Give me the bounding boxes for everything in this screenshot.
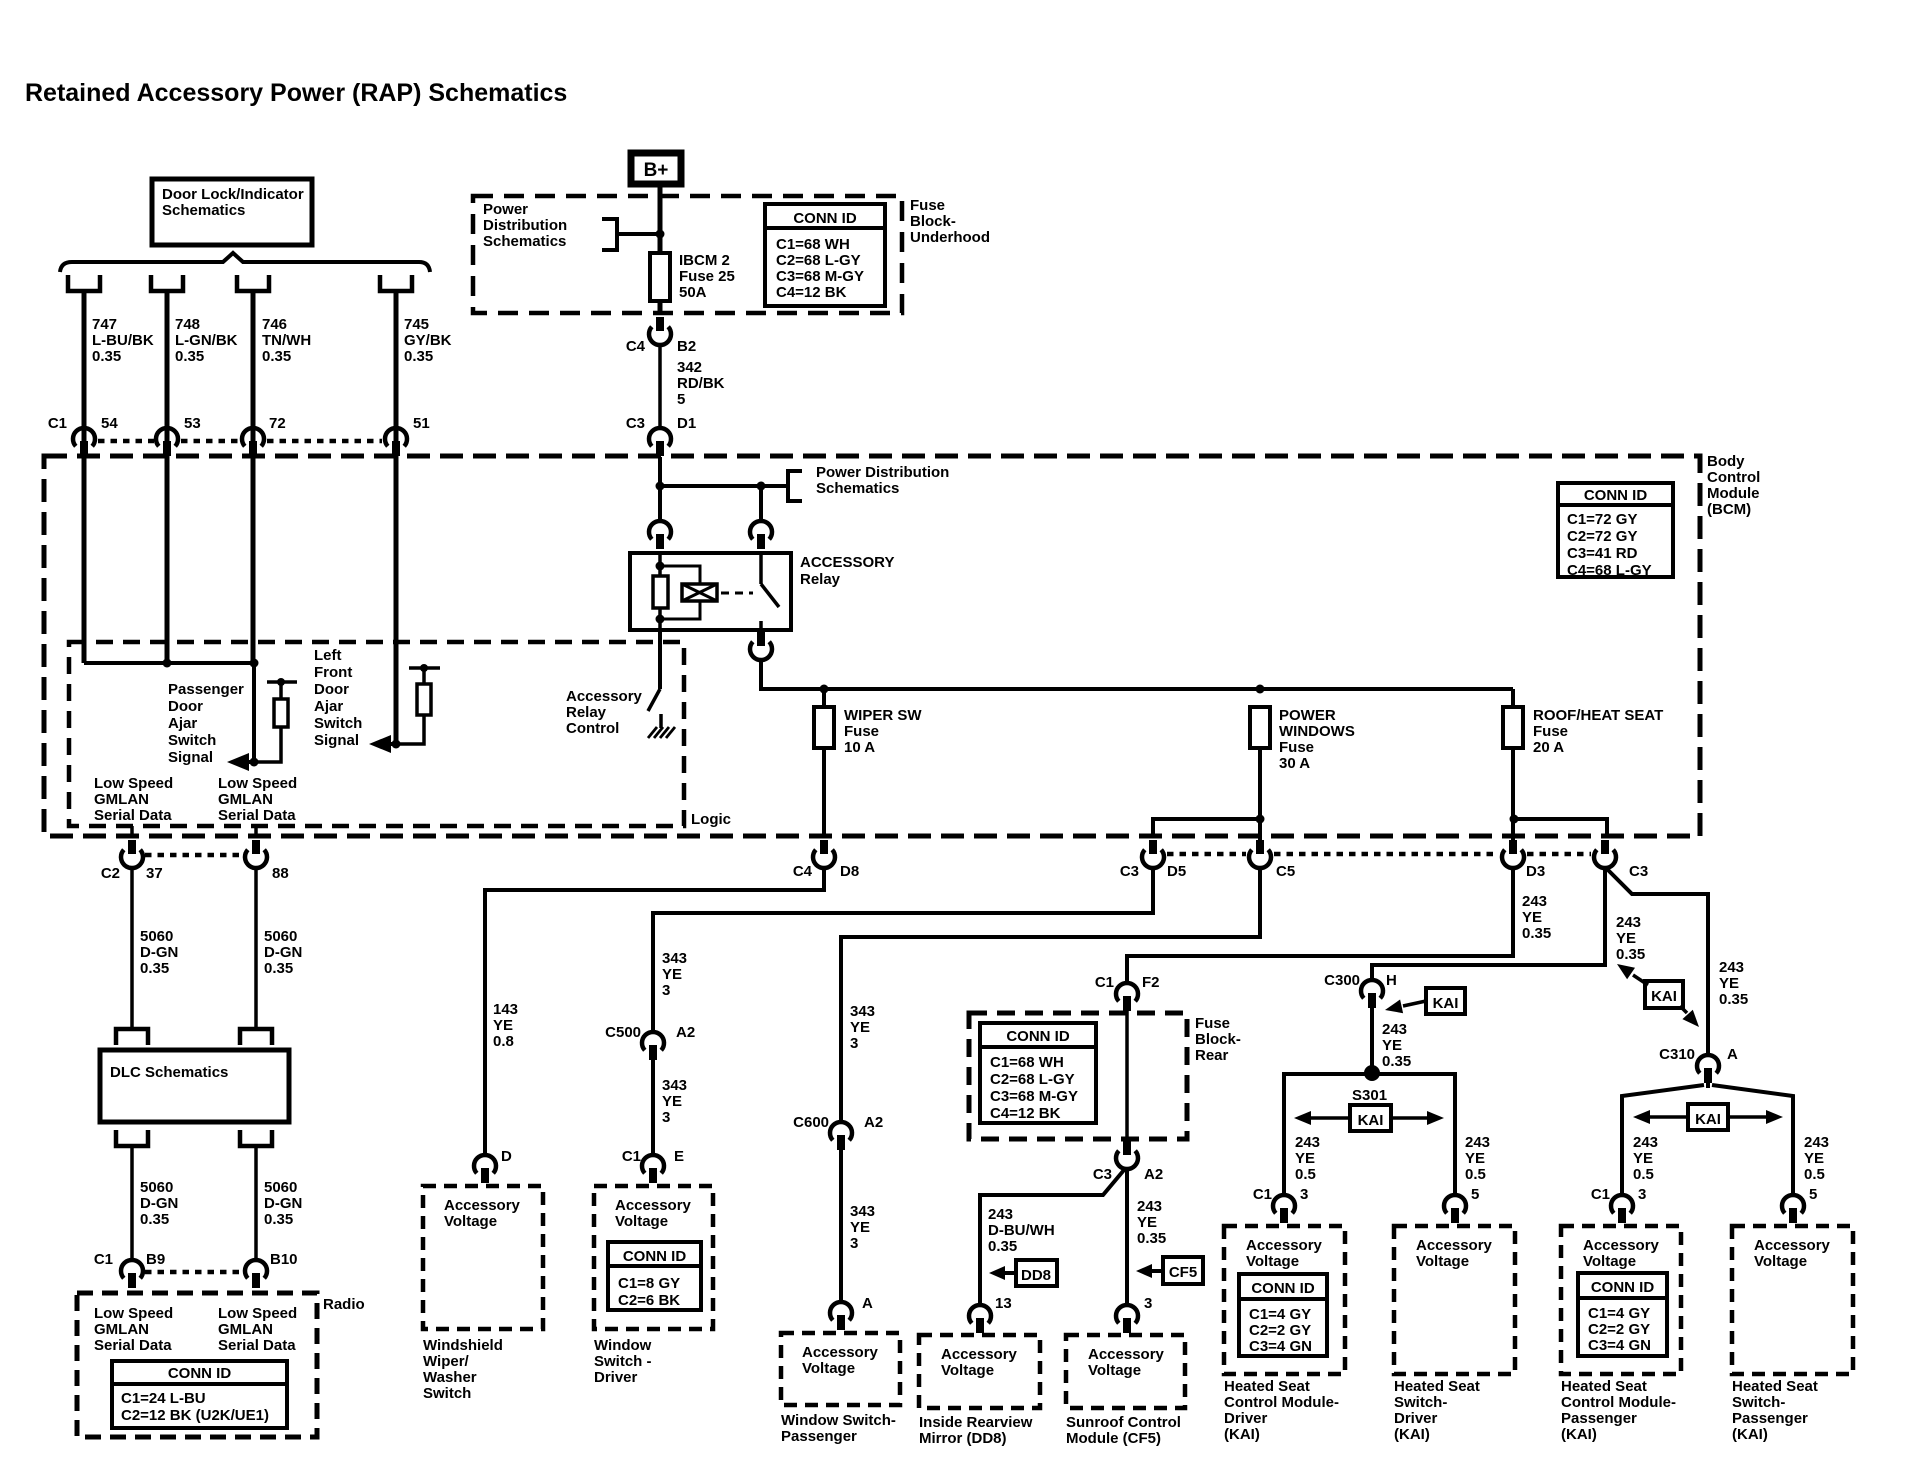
chassis ground <box>648 727 657 738</box>
svg-text:Fuse: Fuse <box>844 723 879 740</box>
svg-text:243: 243 <box>1295 1134 1320 1151</box>
connector C4/D8 <box>820 840 828 854</box>
svg-text:C2=6 BK: C2=6 BK <box>618 1292 680 1309</box>
svg-text:Schematics: Schematics <box>162 202 245 219</box>
relay coil parallel link <box>660 566 700 584</box>
svg-text:C1: C1 <box>1253 1186 1272 1203</box>
dotted line C2 row <box>145 853 243 858</box>
svg-text:0.35: 0.35 <box>988 1238 1017 1255</box>
svg-text:Distribution: Distribution <box>483 217 567 234</box>
svg-text:Serial Data: Serial Data <box>218 807 296 824</box>
wire D8 to windshield wiper switch <box>485 868 824 1155</box>
svg-text:Accessory: Accessory <box>1754 1237 1831 1254</box>
connector C5 <box>1256 840 1264 854</box>
svg-text:0.5: 0.5 <box>1295 1166 1316 1183</box>
svg-text:20 A: 20 A <box>1533 739 1564 756</box>
dashed box Heated Seat Switch-Driver <box>1394 1226 1515 1374</box>
svg-text:Washer: Washer <box>423 1369 477 1386</box>
connector C1 pin 3 heated seat control driver <box>1273 1195 1295 1213</box>
svg-text:YE: YE <box>662 1093 682 1110</box>
connector C2 pin 37 <box>128 840 136 854</box>
svg-text:DLC Schematics: DLC Schematics <box>110 1064 228 1081</box>
connector C1 pin 54 <box>73 428 95 446</box>
svg-text:A2: A2 <box>1144 1166 1163 1183</box>
svg-text:D: D <box>501 1148 512 1165</box>
box DLC Schematics <box>100 1050 289 1122</box>
wire 342 RD/BK 5 <box>658 345 662 428</box>
svg-text:A2: A2 <box>676 1024 695 1041</box>
svg-text:0.35: 0.35 <box>175 348 204 365</box>
connector C1 pin 72 <box>242 428 264 446</box>
svg-text:KAI: KAI <box>1433 995 1459 1012</box>
svg-text:C3: C3 <box>626 415 645 432</box>
dashed box Inside Rearview Mirror <box>919 1335 1040 1408</box>
wire down to relay switch <box>759 486 763 521</box>
svg-text:C4=68 L-GY: C4=68 L-GY <box>1567 562 1652 579</box>
connector C1 pin 53 <box>156 428 178 446</box>
B+ battery feed box <box>631 153 681 184</box>
svg-text:Switch: Switch <box>168 732 216 749</box>
relay output connector <box>757 632 765 646</box>
svg-text:3: 3 <box>1300 1186 1308 1203</box>
svg-text:CONN ID: CONN ID <box>1584 487 1648 504</box>
connector C1 pin 3 heated seat control passenger <box>1611 1195 1633 1213</box>
svg-text:Passenger: Passenger <box>168 681 244 698</box>
svg-text:YE: YE <box>1522 909 1542 926</box>
svg-text:Driver: Driver <box>1394 1410 1438 1427</box>
svg-text:D3: D3 <box>1526 863 1545 880</box>
svg-text:C1=72 GY: C1=72 GY <box>1567 511 1637 528</box>
svg-text:YE: YE <box>1804 1150 1824 1167</box>
svg-text:0.5: 0.5 <box>1633 1166 1654 1183</box>
svg-text:WIPER SW: WIPER SW <box>844 707 922 724</box>
svg-text:0.35: 0.35 <box>1137 1230 1166 1247</box>
svg-text:C1=24 L-BU: C1=24 L-BU <box>121 1390 206 1407</box>
terminal stub 746 <box>237 275 269 291</box>
svg-text:TN/WH: TN/WH <box>262 332 311 349</box>
wire 747 L-BU/BK <box>82 291 87 429</box>
svg-text:(KAI): (KAI) <box>1224 1426 1260 1443</box>
svg-text:Driver: Driver <box>1224 1410 1268 1427</box>
relay switch blade <box>759 553 763 584</box>
dotted line BCM bottom row <box>1167 852 1246 857</box>
relay coil winding symbol <box>682 584 717 601</box>
wire A2 to sunroof control module <box>1125 1168 1129 1305</box>
svg-text:WINDOWS: WINDOWS <box>1279 723 1355 740</box>
svg-text:Window: Window <box>594 1337 652 1354</box>
svg-text:Heated Seat: Heated Seat <box>1561 1378 1647 1395</box>
connector 5 heated seat switch driver <box>1444 1195 1466 1213</box>
wire C300 to S301 <box>1370 1008 1374 1073</box>
svg-text:243: 243 <box>1465 1134 1490 1151</box>
connector C3/D5 <box>1149 840 1157 854</box>
terminal stub 748 <box>151 275 183 291</box>
arrow KAI to C310 branch <box>1680 1006 1687 1013</box>
svg-text:Body: Body <box>1707 453 1745 470</box>
connector D windshield wiper switch <box>474 1155 496 1173</box>
svg-text:243: 243 <box>1633 1134 1658 1151</box>
svg-text:Passenger: Passenger <box>1732 1410 1808 1427</box>
svg-text:Heated Seat: Heated Seat <box>1224 1378 1310 1395</box>
svg-text:Switch-: Switch- <box>1732 1394 1785 1411</box>
svg-text:Fuse: Fuse <box>1279 739 1314 756</box>
svg-text:C2=2 GY: C2=2 GY <box>1588 1321 1650 1338</box>
connector A window switch passenger <box>830 1302 852 1320</box>
svg-text:Front: Front <box>314 664 352 681</box>
CONN ID table Heated Seat Control Module-Passenger <box>1578 1273 1667 1356</box>
wire GMLAN right to DLC <box>254 868 258 1029</box>
svg-text:A2: A2 <box>864 1114 883 1131</box>
svg-text:Door Lock/Indicator: Door Lock/Indicator <box>162 186 304 203</box>
svg-text:C3=41 RD: C3=41 RD <box>1567 545 1638 562</box>
svg-text:IBCM 2: IBCM 2 <box>679 252 730 269</box>
junction 72 bus <box>250 659 259 668</box>
svg-text:Accessory: Accessory <box>1246 1237 1323 1254</box>
connector C1/E window switch driver <box>642 1155 664 1173</box>
svg-text:243: 243 <box>1382 1021 1407 1038</box>
svg-text:B+: B+ <box>644 160 669 181</box>
svg-text:Power: Power <box>483 201 528 218</box>
svg-text:Low Speed: Low Speed <box>94 775 173 792</box>
connector C2 pin 88 <box>252 840 260 854</box>
svg-text:Low Speed: Low Speed <box>218 775 297 792</box>
node passenger door ajar <box>250 758 259 767</box>
svg-text:5060: 5060 <box>140 928 173 945</box>
svg-text:Schematics: Schematics <box>483 233 566 250</box>
svg-text:GMLAN: GMLAN <box>94 791 149 808</box>
reference box KAI at C3 wires <box>1645 981 1683 1008</box>
fuse POWER WINDOWS 30A <box>1250 707 1270 748</box>
svg-text:243: 243 <box>1804 1134 1829 1151</box>
svg-text:C3: C3 <box>1120 863 1139 880</box>
connector 3 sunroof <box>1116 1305 1138 1323</box>
svg-text:Control Module-: Control Module- <box>1224 1394 1339 1411</box>
wire wiper fuse to D8 <box>822 748 826 838</box>
svg-text:GMLAN: GMLAN <box>94 1321 149 1338</box>
accessory relay box U-ACC <box>630 553 791 630</box>
svg-text:Voltage: Voltage <box>615 1213 668 1230</box>
connector B10 radio <box>245 1260 267 1278</box>
arrow left front door ajar signal <box>391 742 396 746</box>
reference box KAI at S301 <box>1350 1105 1391 1131</box>
svg-text:C2: C2 <box>101 865 120 882</box>
svg-text:0.35: 0.35 <box>264 1211 293 1228</box>
svg-text:A: A <box>862 1295 873 1312</box>
svg-text:L-BU/BK: L-BU/BK <box>92 332 154 349</box>
relay actuation dashed link <box>721 592 753 595</box>
svg-text:C1: C1 <box>622 1148 641 1165</box>
connector C1/F2 fuse block rear <box>1116 983 1138 1001</box>
svg-text:H: H <box>1386 972 1397 989</box>
svg-text:YE: YE <box>662 966 682 983</box>
svg-text:Relay: Relay <box>800 571 841 588</box>
wire A2 to inside rearview mirror <box>980 1170 1124 1305</box>
CONN ID table Heated Seat Control Module-Driver <box>1239 1274 1327 1356</box>
svg-text:5060: 5060 <box>264 1179 297 1196</box>
S301 bus <box>1284 1074 1455 1195</box>
svg-text:D-GN: D-GN <box>140 944 178 961</box>
svg-text:747: 747 <box>92 316 117 333</box>
dashed box Window Switch-Passenger <box>781 1333 900 1405</box>
svg-text:Voltage: Voltage <box>1246 1253 1299 1270</box>
svg-text:Voltage: Voltage <box>1754 1253 1807 1270</box>
wire C500 to window switch driver <box>651 1060 655 1155</box>
reference box DD8 <box>1016 1260 1057 1286</box>
wire C3 to C300 <box>1372 868 1605 980</box>
svg-text:0.35: 0.35 <box>92 348 121 365</box>
svg-text:Accessory: Accessory <box>615 1197 692 1214</box>
svg-text:Accessory: Accessory <box>1416 1237 1493 1254</box>
svg-text:Accessory: Accessory <box>1088 1346 1165 1363</box>
svg-text:Power Distribution: Power Distribution <box>816 464 949 481</box>
svg-text:Passenger: Passenger <box>1561 1410 1637 1427</box>
junction at B+ feed <box>656 230 665 239</box>
svg-text:C1: C1 <box>94 1251 113 1268</box>
svg-text:C1=68 WH: C1=68 WH <box>776 236 850 253</box>
svg-text:Switch: Switch <box>314 715 362 732</box>
svg-text:C1: C1 <box>1591 1186 1610 1203</box>
wire to power distribution bracket <box>660 484 788 488</box>
svg-text:A: A <box>1727 1046 1738 1063</box>
svg-text:C2=12 BK (U2K/UE1): C2=12 BK (U2K/UE1) <box>121 1407 269 1424</box>
DLC stub left bottom <box>116 1130 148 1146</box>
svg-text:5: 5 <box>677 391 685 408</box>
svg-text:C4: C4 <box>626 338 646 355</box>
off-page bracket Power Distribution (BCM) <box>788 471 802 501</box>
svg-text:RD/BK: RD/BK <box>677 375 725 392</box>
svg-text:YE: YE <box>1633 1150 1653 1167</box>
fuse ROOF/HEAT SEAT 20A <box>1511 689 1515 707</box>
svg-text:Mirror (DD8): Mirror (DD8) <box>919 1430 1007 1447</box>
svg-text:C1=4 GY: C1=4 GY <box>1588 1305 1650 1322</box>
svg-text:Switch: Switch <box>423 1385 471 1402</box>
svg-text:Voltage: Voltage <box>1416 1253 1469 1270</box>
svg-text:3: 3 <box>850 1035 858 1052</box>
junction 53 bus <box>163 659 172 668</box>
svg-text:5: 5 <box>1471 1186 1479 1203</box>
svg-text:C4=12 BK: C4=12 BK <box>776 284 847 301</box>
svg-text:Accessory: Accessory <box>444 1197 521 1214</box>
svg-text:YE: YE <box>1137 1214 1157 1231</box>
svg-text:Voltage: Voltage <box>444 1213 497 1230</box>
GMLAN stub right <box>254 826 258 838</box>
svg-text:5060: 5060 <box>140 1179 173 1196</box>
svg-text:Heated Seat: Heated Seat <box>1732 1378 1818 1395</box>
dashed box Fuse Block-Underhood <box>473 196 902 313</box>
svg-text:D-GN: D-GN <box>264 1195 302 1212</box>
connector D3 <box>1509 840 1517 854</box>
svg-text:KAI: KAI <box>1358 1112 1384 1129</box>
svg-text:Control Module-: Control Module- <box>1561 1394 1676 1411</box>
svg-text:Accessory: Accessory <box>566 688 643 705</box>
fuse IBCM 2 Fuse 25 50A <box>650 253 670 301</box>
svg-text:5: 5 <box>1809 1186 1817 1203</box>
svg-text:Signal: Signal <box>314 732 359 749</box>
svg-text:C2=72 GY: C2=72 GY <box>1567 528 1637 545</box>
svg-text:D1: D1 <box>677 415 696 432</box>
DLC stub left top <box>116 1029 148 1045</box>
svg-text:C1: C1 <box>1095 974 1114 991</box>
connector row dotted line C1 <box>98 439 154 444</box>
terminal stub 747 <box>68 275 100 291</box>
svg-text:3: 3 <box>1144 1295 1152 1312</box>
svg-text:Low Speed: Low Speed <box>94 1305 173 1322</box>
ground stub <box>659 714 663 728</box>
wire B+ feed down <box>658 184 663 313</box>
svg-text:Ajar: Ajar <box>168 715 197 732</box>
svg-text:0.35: 0.35 <box>404 348 433 365</box>
svg-text:L-GN/BK: L-GN/BK <box>175 332 238 349</box>
svg-text:0.35: 0.35 <box>264 960 293 977</box>
svg-text:POWER: POWER <box>1279 707 1336 724</box>
wire accessory relay control <box>658 630 662 689</box>
svg-text:0.35: 0.35 <box>140 1211 169 1228</box>
reference box KAI at C300 <box>1426 988 1465 1014</box>
svg-text:Fuse: Fuse <box>910 197 945 214</box>
svg-text:YE: YE <box>1295 1150 1315 1167</box>
svg-text:C300: C300 <box>1324 972 1360 989</box>
svg-text:Serial Data: Serial Data <box>94 807 172 824</box>
svg-text:3: 3 <box>662 982 670 999</box>
svg-text:343: 343 <box>662 1077 687 1094</box>
svg-text:Accessory: Accessory <box>1583 1237 1660 1254</box>
svg-text:343: 343 <box>850 1203 875 1220</box>
svg-text:CONN ID: CONN ID <box>623 1248 687 1265</box>
svg-text:Retained Accessory Power (RAP): Retained Accessory Power (RAP) Schematic… <box>25 79 567 107</box>
svg-text:YE: YE <box>850 1019 870 1036</box>
svg-text:Voltage: Voltage <box>1583 1253 1636 1270</box>
svg-text:Serial Data: Serial Data <box>94 1337 172 1354</box>
wire bracket to B+ feed <box>617 232 660 236</box>
svg-text:D-BU/WH: D-BU/WH <box>988 1222 1055 1239</box>
svg-text:0.35: 0.35 <box>262 348 291 365</box>
dashed box Body Control Module BCM <box>44 456 1700 836</box>
wire C3 to C310 <box>1607 869 1708 1055</box>
svg-text:Window Switch-: Window Switch- <box>781 1412 896 1429</box>
svg-text:C2=68 L-GY: C2=68 L-GY <box>990 1071 1075 1088</box>
wire F2 to A2 inside fuse block rear <box>1125 1010 1129 1139</box>
wire D3 to fuse block rear F2 <box>1127 868 1513 983</box>
svg-text:0.8: 0.8 <box>493 1033 514 1050</box>
wire 746 TN/WH <box>251 291 256 429</box>
wire relay output to fuse bus <box>761 660 1513 689</box>
svg-text:D-GN: D-GN <box>264 944 302 961</box>
svg-text:3: 3 <box>850 1235 858 1252</box>
svg-text:D-GN: D-GN <box>140 1195 178 1212</box>
svg-text:Low Speed: Low Speed <box>218 1305 297 1322</box>
CONN ID table Fuse Block-Underhood <box>765 204 885 306</box>
svg-text:ROOF/HEAT SEAT: ROOF/HEAT SEAT <box>1533 707 1663 724</box>
resistor passenger door ajar pull-up <box>254 727 281 762</box>
svg-text:Rear: Rear <box>1195 1047 1229 1064</box>
svg-text:C600: C600 <box>793 1114 829 1131</box>
svg-text:Ajar: Ajar <box>314 698 343 715</box>
svg-text:0.35: 0.35 <box>1522 925 1551 942</box>
CONN ID table BCM <box>1558 483 1673 577</box>
svg-text:Windshield: Windshield <box>423 1337 503 1354</box>
resistor left front door ajar pull-up <box>396 715 424 744</box>
svg-text:C500: C500 <box>605 1024 641 1041</box>
wire C600 to window switch passenger <box>839 1150 843 1302</box>
svg-text:C1=4 GY: C1=4 GY <box>1249 1306 1311 1323</box>
reference box CF5 <box>1163 1257 1203 1284</box>
svg-text:Logic: Logic <box>691 811 731 828</box>
svg-text:Signal: Signal <box>168 749 213 766</box>
svg-text:Voltage: Voltage <box>802 1360 855 1377</box>
wire GMLAN left to DLC <box>130 868 134 1029</box>
svg-text:Heated Seat: Heated Seat <box>1394 1378 1480 1395</box>
svg-text:0.5: 0.5 <box>1804 1166 1825 1183</box>
svg-text:GMLAN: GMLAN <box>218 791 273 808</box>
dashed box Heated Seat Switch-Passenger <box>1732 1226 1853 1374</box>
svg-text:Module (CF5): Module (CF5) <box>1066 1430 1161 1447</box>
svg-text:Driver: Driver <box>594 1369 638 1386</box>
svg-text:(BCM): (BCM) <box>1707 501 1751 518</box>
node left front door ajar <box>392 740 401 749</box>
svg-text:KAI: KAI <box>1695 1111 1721 1128</box>
svg-text:GY/BK: GY/BK <box>404 332 452 349</box>
svg-text:GMLAN: GMLAN <box>218 1321 273 1338</box>
svg-text:YE: YE <box>1382 1037 1402 1054</box>
dotted line radio connector row <box>145 1270 243 1275</box>
svg-text:54: 54 <box>101 415 118 432</box>
svg-text:50A: 50A <box>679 284 707 301</box>
svg-text:YE: YE <box>850 1219 870 1236</box>
double arrow KAI C310 <box>1645 1115 1688 1119</box>
svg-text:(KAI): (KAI) <box>1561 1426 1597 1443</box>
wire C5 to C600 <box>841 868 1260 1122</box>
svg-text:72: 72 <box>269 415 286 432</box>
door ajar summing bus <box>82 429 87 663</box>
arrow passenger door ajar signal <box>249 760 254 764</box>
connector C300/H <box>1361 980 1383 998</box>
relay control switch blade <box>648 689 660 711</box>
svg-text:C1: C1 <box>48 415 67 432</box>
svg-text:Serial Data: Serial Data <box>218 1337 296 1354</box>
fuse WIPER SW 10A <box>822 689 826 707</box>
DLC stub right top <box>240 1029 272 1045</box>
svg-text:CONN ID: CONN ID <box>168 1365 232 1382</box>
svg-text:F2: F2 <box>1142 974 1160 991</box>
dashed box Radio <box>77 1293 317 1437</box>
svg-text:10 A: 10 A <box>844 739 875 756</box>
svg-text:CONN ID: CONN ID <box>1251 1280 1315 1297</box>
svg-text:748: 748 <box>175 316 200 333</box>
double arrow KAI S301 <box>1306 1116 1350 1120</box>
off-page bracket to Power Distribution <box>602 219 617 250</box>
connector C1/B9 radio <box>121 1260 143 1278</box>
relay switch input connector <box>750 521 772 539</box>
wire D1 to accessory relay <box>658 457 662 521</box>
svg-text:Block-: Block- <box>910 213 956 230</box>
dashed box Window Switch-Driver <box>594 1186 713 1329</box>
svg-text:Inside Rearview: Inside Rearview <box>919 1414 1033 1431</box>
svg-text:YE: YE <box>1465 1150 1485 1167</box>
svg-text:C3=4 GN: C3=4 GN <box>1588 1337 1651 1354</box>
wire DLC to radio B10 <box>254 1146 258 1260</box>
svg-text:CF5: CF5 <box>1169 1264 1197 1281</box>
svg-text:143: 143 <box>493 1001 518 1018</box>
connector 13 rearview mirror <box>969 1305 991 1323</box>
svg-text:Module: Module <box>1707 485 1760 502</box>
GMLAN stub left <box>130 826 134 838</box>
svg-text:5060: 5060 <box>264 928 297 945</box>
svg-text:CONN ID: CONN ID <box>793 210 857 227</box>
box Door Lock/Indicator Schematics <box>152 179 312 245</box>
svg-text:243: 243 <box>1137 1198 1162 1215</box>
svg-text:KAI: KAI <box>1651 988 1677 1005</box>
svg-text:342: 342 <box>677 359 702 376</box>
